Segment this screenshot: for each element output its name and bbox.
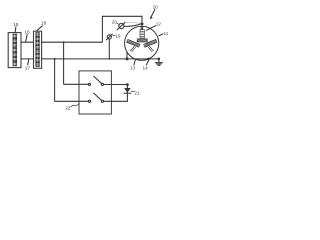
svg-text:21: 21 bbox=[134, 90, 140, 95]
svg-text:16: 16 bbox=[24, 30, 30, 35]
wire branch down from bus to switch row2 bbox=[55, 59, 89, 101]
svg-text:13: 13 bbox=[130, 66, 136, 71]
wire 17 between boxes bbox=[21, 58, 34, 60]
spark gap 20 bbox=[119, 23, 124, 28]
label 10 arrow bbox=[151, 10, 155, 18]
lower-right electrode stem bbox=[148, 46, 153, 51]
switch S2 blade bbox=[94, 93, 102, 100]
svg-text:10: 10 bbox=[153, 4, 159, 9]
label 16 leader bbox=[26, 34, 28, 41]
box 18 vertical text bbox=[36, 33, 39, 67]
wire top rail bbox=[102, 15, 142, 17]
svg-text:11: 11 bbox=[163, 31, 168, 36]
label 12 leader bbox=[147, 26, 156, 31]
box 15 impulse power supply bbox=[8, 33, 21, 68]
wire gap19 to bus bbox=[108, 39, 110, 59]
motor ring 11 bbox=[125, 26, 159, 60]
node on motor drop wire bbox=[141, 23, 144, 26]
lower-left electrode stem bbox=[130, 46, 135, 51]
wire gap20 to motor drop bbox=[124, 24, 142, 27]
wire branch down from line1 to switch row1 bbox=[64, 42, 89, 84]
diode 21 bbox=[126, 85, 128, 102]
label 21 dash bbox=[131, 90, 134, 92]
lower-right electrode pole shoe bbox=[144, 39, 157, 47]
lower-left electrode pole shoe bbox=[127, 39, 140, 47]
label 19 dash bbox=[113, 35, 116, 37]
label 13 leader bbox=[134, 60, 135, 65]
svg-text:18: 18 bbox=[41, 21, 47, 26]
svg-text:17: 17 bbox=[25, 66, 31, 71]
wire S1 out to diode bbox=[104, 84, 128, 86]
switch S2 contacts bbox=[88, 100, 90, 102]
box 18 distributor bbox=[34, 31, 42, 68]
label 20 dash bbox=[117, 23, 119, 24]
ground symbol bbox=[155, 59, 162, 65]
switch S1 contacts bbox=[88, 83, 90, 85]
box 15 vertical text bbox=[13, 34, 16, 65]
node on line1 bbox=[63, 41, 65, 43]
wire line1 from box18 to riser bbox=[42, 16, 103, 42]
node diode top bbox=[126, 83, 129, 86]
label 18 leader bbox=[37, 26, 43, 31]
top electrode pole shoe bbox=[137, 39, 147, 42]
faint wire gap20 slash to node bbox=[125, 21, 141, 24]
svg-text:20: 20 bbox=[112, 20, 118, 25]
wire stub motor to bus bbox=[126, 52, 128, 59]
top electrode 12 stem bbox=[141, 27, 142, 30]
switch box 22 bbox=[79, 71, 111, 114]
svg-text:15: 15 bbox=[13, 22, 19, 27]
wire S2 out to diode bbox=[104, 100, 128, 102]
label 22 tilde leader bbox=[71, 104, 79, 107]
wire 16 between boxes bbox=[21, 41, 34, 43]
svg-text:12: 12 bbox=[156, 22, 162, 27]
node ring-bus right bbox=[147, 58, 150, 61]
top electrode coil bbox=[140, 30, 144, 38]
wire ground bus bbox=[42, 58, 159, 60]
node on bus bbox=[54, 58, 56, 60]
node stub-bus bbox=[126, 57, 129, 60]
node gap19-bus bbox=[108, 58, 110, 60]
svg-text:19: 19 bbox=[115, 33, 121, 38]
switch S1 blade bbox=[94, 76, 102, 83]
node bus-ground corner bbox=[158, 58, 161, 61]
spark gap 19 bbox=[107, 35, 111, 39]
label 17 leader bbox=[28, 60, 29, 65]
label 15 leader bbox=[14, 27, 17, 33]
svg-text:14: 14 bbox=[142, 66, 148, 71]
label 11 leader bbox=[159, 34, 163, 36]
wire drop to motor top bbox=[141, 16, 143, 26]
label 14 leader bbox=[146, 60, 148, 65]
svg-text:22: 22 bbox=[65, 106, 71, 111]
